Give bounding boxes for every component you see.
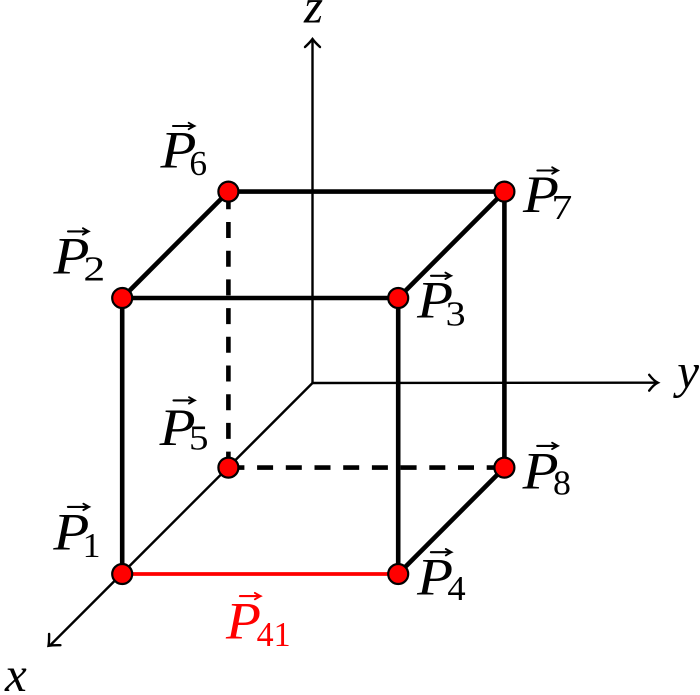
svg-text:y: y	[672, 344, 699, 399]
svg-text:8: 8	[553, 464, 571, 503]
svg-text:5: 5	[189, 418, 209, 457]
svg-text:3: 3	[446, 294, 466, 333]
svg-text:6: 6	[189, 144, 207, 183]
svg-text:4: 4	[447, 569, 465, 608]
svg-text:z: z	[303, 0, 323, 34]
svg-text:2: 2	[83, 250, 105, 289]
svg-text:x: x	[4, 647, 27, 695]
svg-text:41: 41	[257, 615, 291, 654]
svg-text:P: P	[225, 593, 261, 651]
svg-text:7: 7	[552, 188, 573, 227]
svg-text:1: 1	[83, 526, 101, 565]
